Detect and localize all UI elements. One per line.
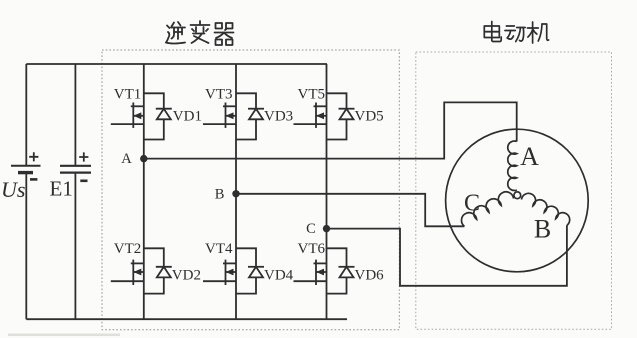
svg-text:VD1: VD1 xyxy=(173,109,202,125)
svg-text:VD6: VD6 xyxy=(355,268,385,284)
svg-text:VT1: VT1 xyxy=(114,87,142,103)
svg-text:VD5: VD5 xyxy=(355,109,384,125)
svg-text:A: A xyxy=(121,151,132,167)
svg-text:VD3: VD3 xyxy=(264,109,293,125)
svg-text:C: C xyxy=(306,221,316,237)
svg-text:VT2: VT2 xyxy=(114,241,142,257)
svg-text:VD2: VD2 xyxy=(172,268,201,284)
svg-text:VT4: VT4 xyxy=(205,241,233,257)
svg-text:E1: E1 xyxy=(50,177,73,201)
svg-text:VD4: VD4 xyxy=(264,268,294,284)
svg-text:VT3: VT3 xyxy=(205,87,233,103)
svg-text:B: B xyxy=(534,215,551,244)
svg-text:B: B xyxy=(215,187,225,203)
svg-text:A: A xyxy=(520,142,539,171)
svg-text:VT6: VT6 xyxy=(298,241,326,257)
svg-text:VT5: VT5 xyxy=(298,87,326,103)
svg-text:C: C xyxy=(464,191,480,217)
svg-text:Us: Us xyxy=(1,177,25,202)
